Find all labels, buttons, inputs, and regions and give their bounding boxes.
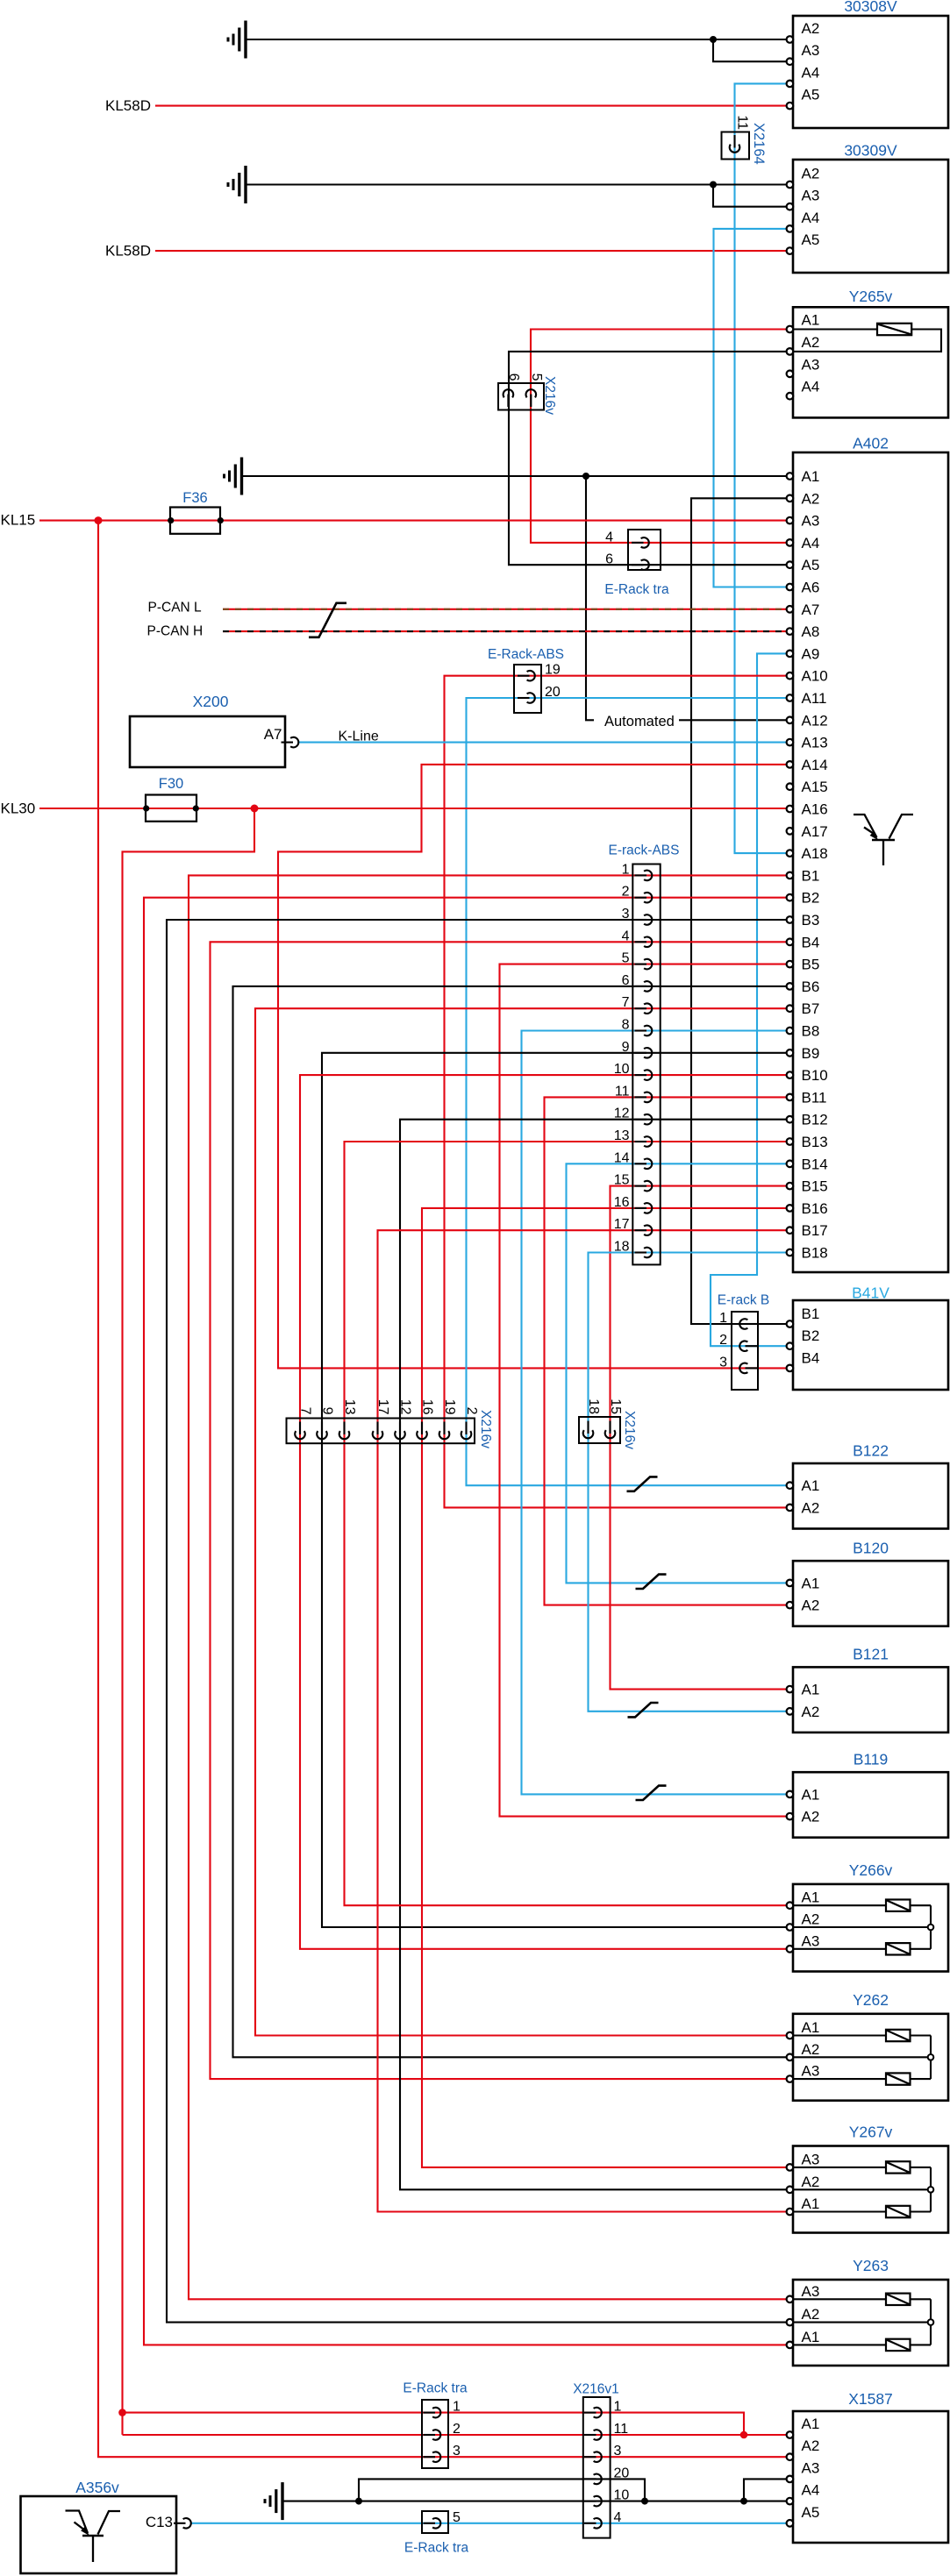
wire KL15 riser to X1587 A2 row [98,521,793,2458]
ground symbol (30309V) [244,166,246,203]
svg-text:E-Rack tra: E-Rack tra [604,582,669,597]
device box 30308V [793,16,948,128]
svg-text:5: 5 [529,374,544,381]
pin 10 of E-rack-ABS [635,1074,647,1076]
svg-text:E-rack-ABS: E-rack-ABS [609,843,680,858]
junction A1/Automated [582,473,589,480]
pin 2 of X216v [465,1422,467,1435]
svg-text:18: 18 [586,1398,601,1414]
svg-text:A7: A7 [264,726,282,743]
svg-text:17: 17 [375,1399,390,1415]
svg-text:3: 3 [453,2444,461,2459]
svg-text:KL30: KL30 [1,801,36,817]
svg-text:E-Rack-ABS: E-Rack-ABS [488,647,564,662]
svg-text:16: 16 [420,1399,435,1415]
wire A402 B3 to Y263 A2 [167,920,793,2323]
wire Automated to A402 A12 [586,476,594,720]
node circle Y263 A2 [928,2319,934,2325]
wire ground branch to X1587 A3 [744,2479,793,2501]
wire A402 B17 via X216v 17 to Y267v A1 [378,1230,794,2211]
device box B120 [793,1561,948,1626]
device box X1587 [793,2411,948,2543]
wire ground branch via X216v1 20 [359,2479,645,2501]
shield symbol B120 [636,1575,667,1589]
wire A402 B1 to Y263 A3 [189,875,793,2299]
device box B41V [793,1300,948,1390]
connector E-Rack-ABS pins 19,20 [514,665,541,713]
pin 10 of X216v1 [584,2501,596,2502]
svg-text:Automated: Automated [604,714,675,729]
svg-text:A4: A4 [802,2482,820,2499]
pin 12 of E-rack-ABS [635,1119,647,1121]
svg-text:A4: A4 [802,210,820,226]
junction ground/X216v1-20 [355,2498,362,2505]
valve coil Y265v [793,328,877,330]
svg-text:X216v: X216v [622,1411,637,1449]
svg-text:9: 9 [622,1040,630,1055]
svg-text:15: 15 [608,1398,623,1414]
svg-text:A1: A1 [802,1477,820,1494]
svg-text:B122: B122 [853,1441,889,1459]
ground symbol (A402 A1) [240,458,243,495]
svg-text:B12: B12 [802,1112,828,1128]
svg-text:2: 2 [622,885,630,900]
svg-text:30308V: 30308V [844,0,897,15]
svg-text:Y263: Y263 [853,2257,889,2274]
wire Y265v A2 via X216v 6 / E-Rack tra 6 to A402 A5 [509,352,793,565]
svg-text:F30: F30 [159,776,183,792]
wire A402 B8 to B119 A1 [522,1031,794,1795]
svg-text:A3: A3 [802,513,820,530]
svg-text:4: 4 [605,530,613,544]
svg-text:A9: A9 [802,645,820,662]
wire A402 B7 to Y262 A1 [255,1008,793,2035]
twisted-pair symbol P-CAN [309,603,346,637]
pin 19 of X216v [443,1422,445,1435]
svg-text:X216v1: X216v1 [573,2382,619,2397]
svg-text:1: 1 [453,2400,461,2415]
junction X216v1-20 return [641,2498,648,2505]
svg-text:X1587: X1587 [848,2390,893,2408]
valve coils Y266v [793,1904,886,1906]
node circle Y267v A2 [928,2187,934,2193]
svg-text:A5: A5 [802,2504,820,2521]
svg-text:14: 14 [614,1150,630,1165]
svg-text:5: 5 [622,951,630,966]
pin 1 of E-rack-ABS [635,874,647,876]
svg-text:C13: C13 [146,2514,173,2530]
svg-text:B10: B10 [802,1067,828,1084]
wire KL15 via F36 to A402 A3 [39,520,793,522]
wire A402 A9 to B41V B2 [711,653,793,1346]
svg-text:A3: A3 [802,356,820,373]
pin 7 of X216v [299,1422,301,1435]
svg-text:8: 8 [622,1018,630,1033]
wire A402 A2 to B41V B1 [691,498,793,1324]
svg-text:Y262: Y262 [853,1991,889,2009]
wire Y265v A1 via X216v 5 / E-Rack tra 4 to A402 A4 [531,330,793,543]
wire A402 B12 via X216v 12 to Y267v A2 [400,1120,793,2190]
ground symbol (30308V) [244,21,246,59]
svg-text:5: 5 [453,2510,461,2525]
svg-text:2: 2 [719,1333,727,1348]
wire A402 B9 via X216v 9 to Y266v A2 [322,1053,793,1927]
svg-text:A3: A3 [802,42,820,59]
connector E-rack-ABS pins 1-18 [632,865,660,1265]
svg-text:B8: B8 [802,1023,820,1040]
svg-text:Y266v: Y266v [849,1861,893,1879]
svg-text:A356v: A356v [75,2479,119,2496]
svg-text:6: 6 [605,552,613,567]
device box Y267v [793,2146,948,2233]
svg-text:Y267v: Y267v [849,2124,893,2141]
wire A402 B18 via X216v 18 to B121 A2 [589,1253,794,1711]
wire ground to 30309V A2 [247,183,794,185]
svg-text:A13: A13 [802,735,828,751]
wire KL58D to 30309V A5 [155,250,793,252]
svg-text:A4: A4 [802,535,820,551]
svg-text:B15: B15 [802,1178,828,1195]
svg-text:A8: A8 [802,623,820,640]
wire KL30 branch riser [123,808,255,2435]
wire ground to 30308V A2 [247,39,794,40]
svg-text:A2: A2 [802,1809,820,1825]
svg-text:B3: B3 [802,912,820,929]
svg-text:A2: A2 [802,334,820,351]
pin 5 of E-rack-ABS [635,964,647,965]
svg-text:A1: A1 [802,1575,820,1591]
svg-text:7: 7 [622,995,630,1010]
svg-text:A17: A17 [802,823,828,840]
svg-text:E-rack B: E-rack B [718,1293,769,1308]
pin 4 of E-rack-ABS [635,941,647,943]
svg-text:1: 1 [622,862,630,877]
pin 16 of X216v [421,1422,423,1435]
pin 16 of E-rack-ABS [635,1207,647,1209]
connector X2164 pin 11 [722,132,750,160]
svg-text:1: 1 [719,1311,727,1326]
svg-text:A3: A3 [802,188,820,204]
svg-text:A1: A1 [802,2416,820,2432]
svg-text:11: 11 [614,2422,629,2437]
svg-text:B9: B9 [802,1045,820,1062]
svg-text:B18: B18 [802,1245,828,1262]
valve coils Y263 [793,2298,886,2300]
node circle Y262 A2 [928,2054,934,2060]
svg-text:Y265v: Y265v [849,288,893,305]
svg-text:B17: B17 [802,1222,828,1239]
device box A356v [21,2496,177,2573]
svg-text:B121: B121 [853,1646,889,1663]
svg-text:B2: B2 [802,1327,820,1344]
wire A402 B15 via X216v 15 to B121 A1 [611,1186,794,1690]
transistor symbol inside A356v [66,2511,89,2534]
svg-text:A5: A5 [802,231,820,248]
wire A402 A10 via E-Rack-ABS 19 / X216v 19 to B122 A2 [445,676,794,1508]
svg-text:2: 2 [453,2422,461,2437]
wire A402 B2 to Y263 A1 [144,898,793,2345]
pin 1 of X216v1 [584,2412,596,2414]
svg-text:A10: A10 [802,668,828,685]
svg-text:11: 11 [615,1084,630,1099]
ground symbol (X1587) [281,2482,283,2520]
wire A402 B13 via X216v 13 to Y266v A1 [345,1142,794,1905]
valve coils Y262 [793,2034,886,2036]
device box Y263 [793,2280,948,2366]
pin 9 of E-rack-ABS [635,1052,647,1054]
svg-text:B6: B6 [802,978,820,995]
svg-text:E-Rack tra: E-Rack tra [403,2381,468,2396]
shield symbol B119 [636,1786,667,1800]
svg-text:15: 15 [614,1173,630,1188]
svg-text:A402: A402 [853,435,889,452]
connector X216v pins 18,15 [579,1417,620,1443]
shield symbol B121 [628,1703,659,1717]
pin 7 of E-rack-ABS [635,1007,647,1009]
svg-text:A2: A2 [802,2041,820,2058]
svg-text:13: 13 [614,1128,630,1143]
svg-text:A6: A6 [802,580,820,596]
wire 30309V A4 to A402 A6 [714,229,794,587]
device box Y265v [793,307,948,417]
wire branch to 30308V A3 [713,39,793,61]
svg-text:A3: A3 [802,2459,820,2476]
wire A402 B10 via X216v 7 to Y266v A3 [300,1075,793,1949]
svg-text:K-Line: K-Line [339,729,379,744]
node circle Y266v A2 [928,1925,934,1931]
junction 30308V ground [710,36,717,43]
wire A402 A14 to B41V B4 via E-rack B 3 [278,765,793,1369]
svg-text:4: 4 [614,2510,622,2525]
wire KL30 branch to X1587 A1 rows [123,2413,745,2435]
svg-text:3: 3 [719,1355,727,1370]
wire A402 B16 via X216v 16 to Y267v A3 [422,1208,793,2167]
svg-text:B120: B120 [853,1540,889,1557]
svg-text:9: 9 [320,1407,335,1415]
svg-text:B41V: B41V [852,1284,889,1302]
svg-text:2: 2 [464,1407,479,1415]
svg-text:F36: F36 [182,490,207,506]
device box B119 [793,1772,948,1838]
valve coils Y267v [793,2167,886,2168]
svg-text:A2: A2 [802,2306,820,2323]
connector E-Rack tra pin 5 [422,2511,448,2533]
wire A402 B11 to B120 A2 [545,1097,794,1605]
wire KL30 via F30 to A402 A16 [39,808,793,809]
svg-text:A1: A1 [802,2019,820,2036]
svg-text:A1: A1 [802,1682,820,1698]
device box A402 [793,452,948,1272]
svg-text:P-CAN L: P-CAN L [148,600,203,615]
svg-text:A2: A2 [802,2174,820,2190]
svg-text:A2: A2 [802,1704,820,1720]
svg-text:X200: X200 [193,693,229,710]
svg-text:B119: B119 [854,1751,889,1768]
svg-text:X2164: X2164 [751,123,767,165]
svg-text:B5: B5 [802,957,820,973]
device box X200 [130,716,285,767]
svg-text:A1: A1 [802,468,820,485]
svg-text:A3: A3 [802,2063,820,2080]
svg-text:A1: A1 [802,1786,820,1803]
pin 18 of E-rack-ABS [635,1251,647,1253]
svg-text:B14: B14 [802,1156,828,1172]
svg-text:A1: A1 [802,2329,820,2345]
svg-text:A3: A3 [802,1932,820,1949]
pin 13 of X216v [343,1422,345,1435]
wire branch to 30309V A3 [713,185,793,207]
svg-text:3: 3 [622,907,630,922]
svg-text:20: 20 [614,2466,630,2480]
svg-text:18: 18 [614,1240,630,1255]
pin 13 of E-rack-ABS [635,1141,647,1142]
svg-text:A16: A16 [802,801,828,818]
svg-text:A2: A2 [802,2437,820,2454]
connector X216v pins 7,9,13,17,12,16,19,2 [287,1419,475,1444]
pin 4 of X216v1 [584,2523,596,2524]
svg-text:1: 1 [614,2400,622,2415]
svg-text:10: 10 [614,1062,630,1077]
svg-text:17: 17 [614,1217,630,1232]
junction X1587 A3 branch [740,2498,747,2505]
connector E-rack B pins 1,2,3 [732,1312,758,1390]
svg-text:19: 19 [545,663,561,678]
junction KL30 [251,805,259,813]
svg-text:B7: B7 [802,1000,820,1017]
pin 2 of E-rack-ABS [635,897,647,899]
svg-text:B2: B2 [802,890,820,907]
svg-text:KL58D: KL58D [105,97,151,114]
wire A356v C13 to X1587 A5 [191,2523,793,2524]
svg-text:A12: A12 [802,712,828,729]
wire P-CAN H to A402 A8 [223,630,793,632]
wire A402 B4 to Y262 A3 [211,942,794,2079]
svg-text:3: 3 [614,2444,622,2459]
svg-text:B1: B1 [802,1306,820,1322]
svg-text:16: 16 [614,1195,630,1210]
svg-text:A14: A14 [802,757,828,773]
pin 14 of E-rack-ABS [635,1163,647,1164]
svg-text:A1: A1 [802,2195,820,2212]
fuse F36 [170,508,220,534]
wire P-CAN L to A402 A7 [223,608,793,610]
svg-text:A2: A2 [802,1499,820,1516]
svg-text:A2: A2 [802,20,820,37]
svg-text:E-Rack tra: E-Rack tra [404,2541,469,2556]
pin 17 of X216v [376,1422,378,1435]
device box Y266v [793,1884,948,1972]
junction X1587 A1 [740,2431,748,2439]
svg-text:A1: A1 [802,312,820,329]
pin 11 of X216v1 [584,2434,596,2436]
wire A402 B14 to B120 A1 [567,1163,794,1583]
shield symbol B122 [627,1477,658,1491]
wire A402 B6 to Y262 A2 [233,986,794,2057]
svg-text:A1: A1 [802,1889,820,1906]
svg-text:B13: B13 [802,1134,828,1150]
svg-text:A18: A18 [802,845,828,862]
device box 30309V [793,160,948,273]
svg-text:A4: A4 [802,64,820,81]
svg-text:7: 7 [298,1407,313,1415]
svg-text:10: 10 [614,2488,630,2503]
fuse F30 [146,795,196,822]
connector E-Rack tra pins 1,2,3 [422,2400,448,2468]
svg-text:X216v: X216v [542,376,557,415]
pin 9 of X216v [321,1422,323,1435]
svg-text:B11: B11 [802,1089,827,1106]
connector X216v1 pins 1,11,3,20,10,4 [583,2397,611,2538]
pin 17 of E-rack-ABS [635,1229,647,1231]
wire 30308V A4 via X2164 to A402 A18 [735,83,794,853]
svg-text:12: 12 [614,1107,630,1121]
pin 15 of E-rack-ABS [635,1185,647,1187]
svg-text:6: 6 [622,973,630,988]
device box B121 [793,1667,948,1733]
svg-text:6: 6 [506,374,521,381]
pin 11 of E-rack-ABS [635,1096,647,1098]
device box Y262 [793,2014,948,2101]
pin 12 of X216v [399,1422,401,1435]
connector E-Rack tra pins 4,6 [628,530,661,570]
svg-text:KL15: KL15 [1,512,36,529]
junction KL30 riser [118,2409,126,2416]
svg-text:X216v: X216v [478,1410,493,1448]
pin 20 of X216v1 [584,2478,596,2480]
svg-text:20: 20 [545,685,561,700]
svg-text:B16: B16 [802,1200,828,1217]
svg-text:A2: A2 [802,166,820,182]
svg-text:P-CAN H: P-CAN H [147,623,204,638]
wire KL58D to 30308V A5 [155,105,793,107]
junction KL15 [95,516,103,524]
svg-text:A3: A3 [802,2283,820,2300]
svg-text:B4: B4 [802,934,820,950]
svg-text:B1: B1 [802,867,820,884]
svg-text:KL58D: KL58D [105,242,151,259]
device box B122 [793,1463,948,1529]
svg-text:A2: A2 [802,1598,820,1614]
svg-text:19: 19 [442,1399,457,1415]
junction 30309V ground [710,181,717,189]
pin 8 of E-rack-ABS [635,1029,647,1031]
wire K-Line X200 A7 to A402 A13 [299,742,794,744]
svg-text:12: 12 [398,1399,413,1415]
svg-text:A7: A7 [802,601,820,618]
wire A402 B5 to B119 A2 [500,964,794,1817]
svg-text:A5: A5 [802,557,820,573]
svg-text:13: 13 [342,1399,357,1415]
svg-text:A2: A2 [802,1911,820,1928]
pin 6 of E-rack-ABS [635,986,647,987]
svg-text:30309V: 30309V [844,142,897,160]
pin 3 of E-rack-ABS [635,919,647,921]
svg-text:A2: A2 [802,490,820,507]
pin 3 of X216v1 [584,2456,596,2458]
wire A402 A11 via E-Rack-ABS 20 / X216v 2 to B122 A1 [467,698,794,1485]
connector X216v pins 6,5 [498,383,544,410]
svg-text:A15: A15 [802,779,828,795]
svg-text:A3: A3 [802,2151,820,2167]
svg-text:A11: A11 [802,690,827,707]
transistor symbol inside A402 [854,815,877,837]
svg-text:B4: B4 [802,1349,820,1366]
svg-text:4: 4 [622,929,630,943]
wire ground to X1587 A4 [284,2501,794,2502]
svg-text:A4: A4 [802,379,820,395]
svg-text:A5: A5 [802,87,820,103]
svg-text:11: 11 [735,115,750,130]
